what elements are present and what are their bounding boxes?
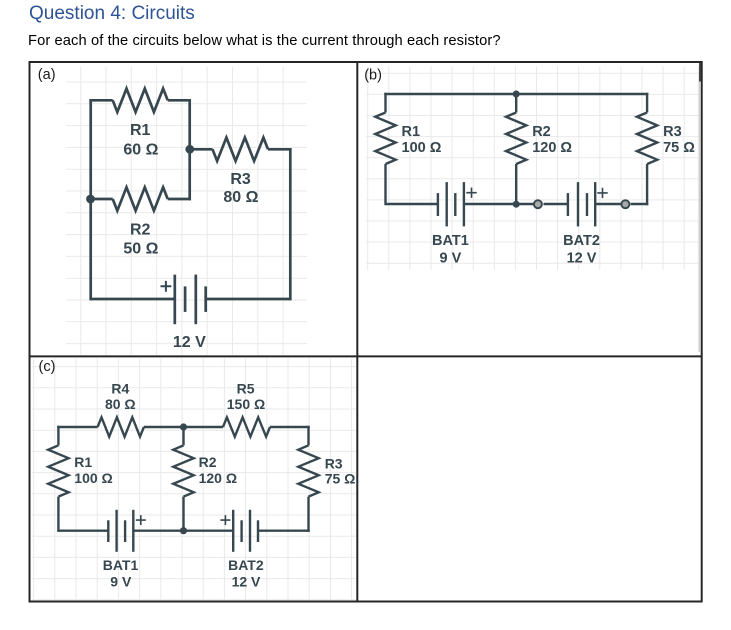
resistor R2 (120 ohm) zigzag bbox=[506, 113, 526, 165]
circuit (c): bottom wire left to BAT1 bbox=[58, 530, 108, 532]
circuit (a): wire R2 right lead bbox=[168, 198, 191, 201]
svg-text:(b): (b) bbox=[364, 68, 382, 84]
battery BAT1 plate short right bbox=[454, 193, 456, 216]
svg-text:R3: R3 bbox=[663, 124, 682, 140]
circuit (a): wire R1 right lead bbox=[168, 99, 191, 102]
circuit (a): wire R3 right lead bbox=[268, 148, 292, 151]
resistor R1 (60 ohm) zigzag bbox=[113, 89, 168, 112]
svg-text:60 Ω: 60 Ω bbox=[123, 141, 158, 158]
battery BAT1 plate short left bbox=[437, 193, 439, 216]
svg-text:R5: R5 bbox=[237, 381, 255, 397]
svg-text:BAT2: BAT2 bbox=[228, 557, 264, 573]
circuit (c): top wire left segment bbox=[57, 426, 97, 428]
junction node bottom at R2 bbox=[513, 201, 520, 208]
junction node top at R2 bbox=[513, 91, 520, 98]
circuit (c): R2 bottom lead bbox=[182, 497, 184, 531]
battery BAT1 plus sign bbox=[466, 188, 476, 198]
junction node top at R2 (c) bbox=[180, 423, 187, 430]
svg-text:R4: R4 bbox=[111, 381, 129, 397]
svg-text:R1: R1 bbox=[130, 122, 151, 139]
circuit (b): wire top horizontal bbox=[384, 93, 648, 95]
battery BAT2 plate long bbox=[577, 182, 579, 226]
circuit (c): top wire R5 to right bbox=[270, 426, 310, 428]
battery BAT1 plate long right bbox=[463, 182, 465, 226]
junction node bottom at R2 (c) bbox=[180, 527, 187, 534]
resistor R2 (50 ohm) zigzag bbox=[113, 187, 168, 210]
svg-text:80 Ω: 80 Ω bbox=[105, 396, 136, 412]
circuit (b): bottom wire terminal to right bbox=[631, 203, 649, 205]
svg-text:BAT1: BAT1 bbox=[432, 233, 469, 249]
circuit (a): wire R2 left lead bbox=[91, 198, 113, 201]
circuit (b): bottom wire terminal to BAT2 bbox=[544, 203, 568, 205]
circuit (a): wire bottom left to battery bbox=[91, 298, 175, 301]
circuit (b): R3 bottom lead bbox=[646, 164, 648, 205]
page title bbox=[29, 3, 195, 25]
resistor R2 (120 ohm) zigzag (c) bbox=[173, 445, 193, 496]
battery BAT1 plate long bbox=[446, 182, 448, 226]
svg-text:9 V: 9 V bbox=[110, 574, 132, 590]
svg-text:R3: R3 bbox=[325, 456, 343, 472]
circuit (b): R1 bottom lead bbox=[384, 164, 386, 205]
battery BAT1 (c) plus sign bbox=[136, 515, 146, 525]
resistor R1 (100 ohm) zigzag bbox=[375, 113, 395, 165]
svg-text:R2: R2 bbox=[130, 221, 151, 238]
battery 12V plate short right bbox=[204, 286, 207, 312]
svg-text:12 V: 12 V bbox=[173, 334, 206, 351]
circuit (c): R3 bottom lead bbox=[307, 497, 309, 532]
battery 12V plate long left bbox=[173, 275, 176, 325]
svg-text:100 Ω: 100 Ω bbox=[74, 470, 112, 486]
battery BAT1 (c) plate long bbox=[115, 510, 117, 552]
svg-text:R2: R2 bbox=[199, 454, 217, 470]
battery BAT2 plate short right bbox=[586, 193, 588, 216]
gray terminal left of BAT2 bbox=[534, 200, 542, 208]
circuit (b): bottom wire BAT1 to node bbox=[464, 203, 534, 205]
gray terminal right of BAT2 bbox=[621, 200, 629, 208]
circuit (a): wire middle vertical (R1 right to R2 right) bbox=[188, 99, 191, 200]
svg-text:100 Ω: 100 Ω bbox=[402, 140, 442, 156]
junction node: left wire / R2 bbox=[86, 195, 95, 204]
circuit (c): top wire R4 to node bbox=[144, 426, 223, 428]
resistor R5 (150 ohm) zigzag bbox=[223, 417, 270, 436]
circuit (b): bottom wire left segment bbox=[386, 203, 438, 205]
circuit (a): wire right vertical bbox=[289, 148, 292, 300]
svg-text:BAT1: BAT1 bbox=[103, 557, 139, 573]
svg-text:R3: R3 bbox=[230, 171, 251, 188]
svg-text:(a): (a) bbox=[38, 67, 56, 83]
resistor R3 (75 ohm) zigzag bbox=[637, 113, 657, 165]
battery BAT2 (c) plate short bbox=[240, 520, 242, 542]
resistor R3 (75 ohm) zigzag (c) bbox=[298, 445, 318, 496]
battery BAT1 (c) plate short right bbox=[124, 520, 126, 542]
battery 12V plate long right bbox=[194, 275, 197, 325]
svg-text:9 V: 9 V bbox=[440, 250, 462, 266]
svg-text:R1: R1 bbox=[74, 454, 92, 470]
svg-text:50 Ω: 50 Ω bbox=[123, 241, 158, 258]
svg-text:75 Ω: 75 Ω bbox=[663, 140, 695, 156]
circuit (c): R2 top lead bbox=[182, 427, 184, 445]
svg-text:R2: R2 bbox=[532, 124, 551, 140]
circuit (a): wire R1 left lead bbox=[89, 99, 112, 102]
battery 12V plate short bbox=[184, 286, 187, 312]
question text bbox=[28, 33, 501, 49]
battery BAT2 plate long right bbox=[594, 182, 596, 226]
svg-text:120 Ω: 120 Ω bbox=[532, 140, 572, 156]
battery BAT2 (c) plate short right bbox=[257, 520, 259, 542]
circuit (b): R3 top lead bbox=[646, 93, 648, 113]
circuit (b): R2 top lead bbox=[515, 94, 517, 113]
battery BAT1 (c) plate short left bbox=[107, 520, 109, 542]
svg-text:75 Ω: 75 Ω bbox=[325, 470, 356, 486]
circuit (c): bottom wire BAT2 to right bbox=[258, 530, 310, 532]
battery BAT2 plus sign bbox=[597, 188, 607, 198]
svg-text:(c): (c) bbox=[39, 359, 56, 375]
junction node: middle wire / R3 bbox=[185, 145, 194, 154]
circuit (a): wire left vertical bbox=[89, 99, 92, 300]
circuit (a): wire bottom battery to right bbox=[206, 298, 291, 301]
svg-text:12 V: 12 V bbox=[232, 574, 261, 590]
circuit (c): R1 top lead bbox=[57, 426, 59, 446]
battery BAT1 (c) plate long right bbox=[132, 510, 134, 552]
svg-text:R1: R1 bbox=[402, 124, 421, 140]
battery 12V plus sign bbox=[161, 281, 172, 292]
svg-text:120 Ω: 120 Ω bbox=[199, 470, 237, 486]
svg-text:150 Ω: 150 Ω bbox=[227, 396, 265, 412]
circuit (c): R3 top lead bbox=[307, 426, 309, 446]
circuit (c): bottom wire BAT1 to node bbox=[133, 530, 233, 532]
circuit (b): R2 bottom lead bbox=[515, 164, 517, 205]
svg-text:BAT2: BAT2 bbox=[563, 233, 600, 249]
battery BAT2 plate short left bbox=[567, 193, 569, 216]
resistor R1 (100 ohm) zigzag (c) bbox=[48, 445, 68, 496]
battery BAT2 (c) plus sign bbox=[220, 515, 230, 525]
circuit (c): R1 bottom lead bbox=[57, 497, 59, 532]
svg-text:80 Ω: 80 Ω bbox=[223, 189, 258, 206]
svg-text:12 V: 12 V bbox=[567, 250, 597, 266]
battery BAT2 (c) plate long right bbox=[249, 510, 251, 552]
battery BAT2 (c) plate long left bbox=[232, 510, 234, 552]
circuit (a): wire R3 left lead bbox=[190, 148, 213, 151]
circuit (b): bottom wire BAT2 to terminal bbox=[595, 203, 621, 205]
resistor R3 (80 ohm) zigzag bbox=[213, 138, 269, 161]
resistor R4 (80 ohm) zigzag bbox=[98, 417, 144, 436]
circuit (b): R1 top lead bbox=[384, 93, 386, 113]
